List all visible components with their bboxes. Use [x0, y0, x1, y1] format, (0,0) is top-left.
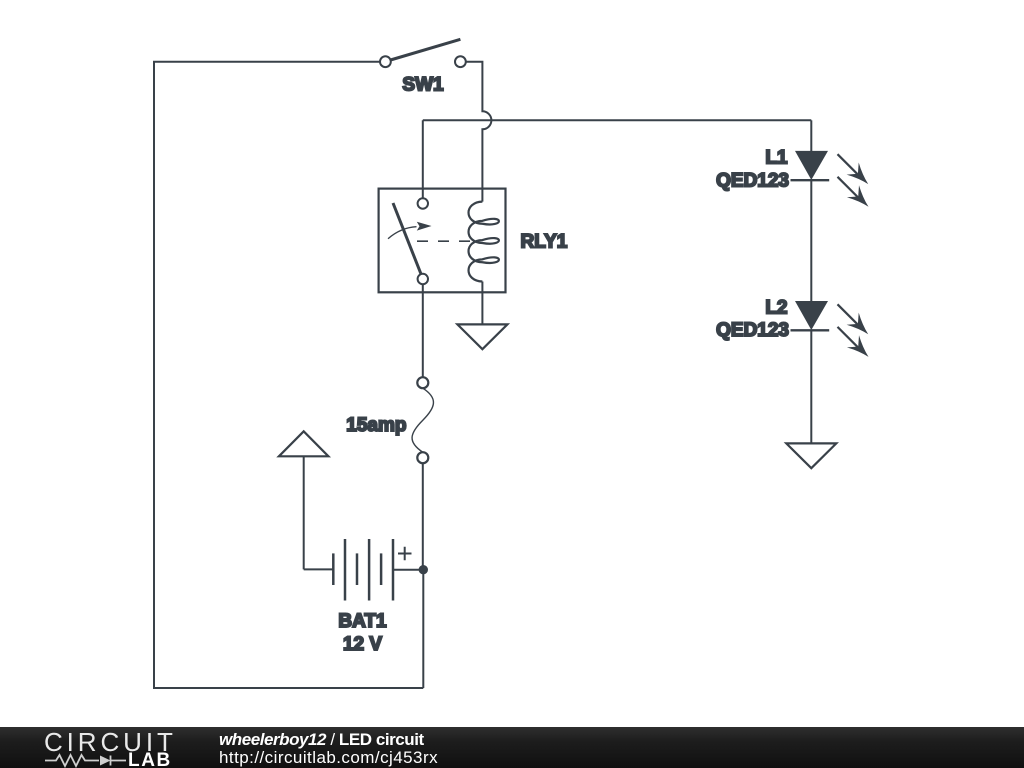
- wire relay bottom pin to fuse: [422, 284, 424, 377]
- switch SW1: [380, 39, 466, 67]
- L2 anode triangle: [795, 301, 828, 330]
- right terminal: [455, 56, 466, 67]
- junction node battery +: [419, 565, 428, 574]
- battery left lead: [304, 568, 334, 570]
- wire L2 to ground: [810, 330, 812, 443]
- svg-text:L1: L1: [765, 147, 788, 168]
- svg-text:QED123: QED123: [716, 320, 789, 341]
- footer bar: [0, 727, 1024, 768]
- relay box: [379, 189, 506, 293]
- L1 light arrow 1: [838, 154, 858, 174]
- fuse bottom terminal: [417, 452, 428, 463]
- svg-text:BAT1: BAT1: [338, 611, 387, 632]
- left terminal: [380, 56, 391, 67]
- ground under relay coil: [457, 324, 507, 349]
- relay switch lever: [393, 203, 421, 274]
- L1 anode triangle: [795, 151, 828, 180]
- wire feed down to LED L1: [810, 120, 812, 151]
- relay actuation arrow arc: [388, 227, 417, 239]
- CircuitLab logo: [0, 727, 200, 768]
- L2 cathode bar + label tick: [791, 329, 830, 331]
- svg-text:12 V: 12 V: [343, 634, 382, 655]
- svg-text:RLY1: RLY1: [521, 232, 568, 253]
- svg-text:L2: L2: [765, 298, 787, 319]
- lever: [391, 39, 461, 60]
- wire top-left: left rail and top wire to SW1 left terminal: [154, 62, 423, 688]
- fuse top terminal: [417, 377, 428, 388]
- wire bottom rail to battery + node: [422, 570, 424, 688]
- L2 light arrow 1: [838, 304, 858, 324]
- relay bottom pin: [418, 274, 428, 284]
- relay dashed link: [417, 240, 470, 242]
- plus sign: [398, 547, 412, 561]
- wire coil to ground: [481, 282, 483, 325]
- L1 cathode bar + label tick: [791, 179, 830, 181]
- wire relay common pin up to horizontal feed: [422, 120, 424, 198]
- L2 light arrow 2: [838, 327, 858, 347]
- footer title: [219, 731, 424, 748]
- svg-text:SW1: SW1: [402, 74, 444, 95]
- relay arrowhead: [417, 222, 432, 231]
- ground under LEDs: [786, 443, 836, 468]
- svg-text:LAB: LAB: [128, 750, 172, 768]
- relay coil: [469, 202, 499, 282]
- power node flag (up arrow): [279, 431, 329, 456]
- fuse F1 15amp: [412, 377, 433, 463]
- footer url: [219, 748, 438, 768]
- relay top pin: [418, 198, 428, 208]
- LED L1: [791, 151, 869, 207]
- battery right lead: [393, 569, 423, 571]
- wire fuse to battery + junction: [422, 463, 424, 570]
- svg-text:15amp: 15amp: [346, 415, 406, 436]
- battery BAT1: [304, 539, 424, 601]
- L1 light arrow 2: [838, 177, 858, 197]
- wire battery - to node flag: [303, 456, 305, 569]
- LED L2: [791, 301, 869, 357]
- wire L1 to L2: [810, 180, 812, 301]
- battery plates: [332, 553, 335, 585]
- fuse wavy element: [412, 388, 433, 452]
- wire SW1 right terminal to relay coil (with hop over horizontal wire): [466, 62, 492, 202]
- relay RLY1: [379, 189, 506, 293]
- svg-text:QED123: QED123: [716, 170, 789, 191]
- wire horizontal feed to LEDs: [423, 119, 812, 121]
